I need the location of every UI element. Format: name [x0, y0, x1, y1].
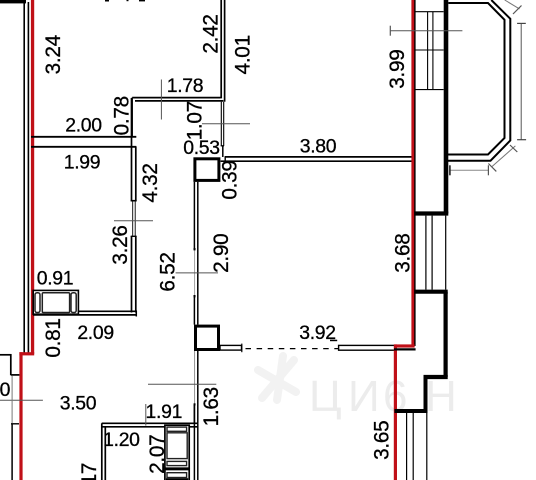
wall corridor right line b lower: [197, 351, 199, 423]
dim line vertical left: [11, 376, 13, 424]
wall left lower vertical: [11, 424, 13, 480]
door jamb thin line left: [132, 201, 134, 236]
wall 3.80 left cap: [224, 156, 226, 161]
wall 1.78 top line: [132, 97, 220, 99]
cabinet tall lower cell: [167, 473, 187, 478]
svg-text:1.07: 1.07: [183, 101, 206, 140]
dim line bay right vertical: [520, 23, 522, 139]
dashed opening line: [246, 348, 342, 350]
red boundary left vertical: [31, 0, 34, 354]
dim tick bay right top: [517, 22, 526, 24]
svg-text:3.99: 3.99: [386, 49, 409, 88]
window bottom mullion c: [426, 413, 428, 480]
wall left inner line: [27, 2, 29, 353]
wall bedroom right upper segment left line: [131, 98, 133, 201]
wall corridor right line b: [197, 182, 199, 325]
wall bottom-left corner horizontal: [0, 354, 12, 356]
red boundary right jog horizontal: [394, 344, 414, 347]
svg-text:1.91: 1.91: [146, 401, 183, 423]
wall corridor top left line: [220, 0, 222, 98]
wall step at kitchen door: [221, 145, 224, 147]
window top-right line1: [416, 11, 444, 13]
cabinet tall cell top: [167, 427, 187, 431]
black cap under red jog: [394, 348, 416, 350]
red boundary right vertical: [411, 0, 414, 347]
svg-text:0.39: 0.39: [219, 160, 242, 199]
shaft square lower: [196, 326, 219, 349]
svg-text:4.01: 4.01: [232, 35, 255, 74]
svg-text:4.32: 4.32: [139, 163, 162, 202]
wall room top (2.00) lower line: [31, 146, 136, 148]
dim tick 3.99 left: [389, 26, 391, 36]
wall corridor right line b bottom: [197, 424, 199, 480]
dim tick bay diagonal end b: [510, 145, 517, 152]
svg-text:0.91: 0.91: [37, 267, 74, 289]
dim line 3.26 crossing: [114, 220, 153, 222]
wall bedroom right upper segment right line: [135, 147, 137, 202]
window bottom mullion b: [412, 413, 414, 480]
svg-text:2.17: 2.17: [78, 463, 101, 480]
wall corridor top right line: [224, 0, 226, 102]
wall bedroom right upper end cap: [131, 200, 137, 202]
wall wc left outer: [101, 423, 103, 480]
dim tick bay bottom left: [449, 165, 451, 175]
cabinet tall cell low: [167, 461, 187, 465]
svg-text:3.50: 3.50: [60, 392, 97, 414]
window mid mullion a: [425, 216, 427, 290]
dim line 1.07: [202, 123, 250, 125]
svg-text:2.09: 2.09: [77, 322, 114, 344]
wall corridor right line a bottom: [193, 424, 195, 480]
wall step horizontal: [424, 375, 448, 379]
window top-right mullion a: [427, 12, 429, 90]
cabinet bedroom cell left: [35, 293, 40, 313]
svg-text:0.78: 0.78: [111, 96, 134, 135]
wall 3.80 top line: [225, 156, 412, 158]
svg-text:2.07: 2.07: [146, 435, 169, 474]
window top-right mullion b: [432, 12, 434, 90]
dim line 3.99 horizontal: [390, 30, 462, 32]
wall left outer line: [23, 2, 25, 353]
door jamb thin line right: [134, 201, 136, 236]
wall bedroom bottom lower line: [33, 314, 137, 316]
wall corridor right line a lower: [194, 351, 196, 405]
stray dash mark: [330, 340, 337, 342]
red boundary left lower vertical: [19, 352, 22, 480]
bay window inner outline: [444, 3, 505, 155]
svg-text:3.24: 3.24: [42, 35, 65, 74]
svg-text:3.65: 3.65: [371, 421, 394, 460]
svg-text:6.52: 6.52: [157, 252, 180, 291]
svg-text:1.20: 1.20: [103, 429, 140, 451]
watermark logo: [258, 356, 296, 400]
wall thin continuation left: [220, 102, 222, 146]
wall step vertical: [222, 146, 224, 157]
dim line 6.52 crossing: [176, 272, 218, 274]
dim tick bay diagonal top: [513, 6, 522, 15]
red boundary left jog horizontal: [19, 352, 34, 355]
cabinet tall cell mid: [167, 433, 187, 459]
dim tick left lower: [11, 423, 19, 425]
dim line bay bottom horizontal: [450, 169, 489, 171]
svg-text:2.00: 2.00: [65, 114, 102, 136]
svg-text:0.81: 0.81: [42, 318, 65, 357]
svg-text:1.99: 1.99: [64, 151, 101, 173]
dim tick bay diagonal end a: [488, 164, 496, 172]
window sill bar left of red: [339, 345, 395, 350]
shaft square upper: [195, 159, 219, 181]
wall thin continuation right: [223, 102, 225, 146]
wall bath bottom lower line: [102, 426, 199, 428]
svg-text:0: 0: [0, 379, 11, 401]
wall bottom-left stub to red: [11, 374, 20, 376]
svg-text:3.26: 3.26: [109, 225, 132, 264]
wall top-left bar: [0, 0, 26, 3]
svg-text:2.90: 2.90: [210, 234, 233, 273]
dim line bay diagonal top: [505, 0, 520, 9]
dim extension 1.78: [160, 80, 162, 120]
wall 1.78 left connector: [131, 98, 133, 137]
cabinet bedroom cell right: [71, 293, 76, 313]
cabinet tall outer: [165, 425, 189, 468]
wall room top (2.00) upper line: [31, 136, 136, 138]
wall bottom cap right: [395, 409, 428, 413]
wall bedroom right lower segment left line: [131, 236, 133, 313]
bay window outer outline: [444, 0, 510, 161]
wall step vertical right: [424, 377, 428, 411]
wall bath bottom upper line: [102, 422, 199, 424]
window mid right line: [445, 216, 447, 290]
svg-text:3.68: 3.68: [392, 233, 415, 272]
window bottom mullion a: [406, 413, 408, 480]
svg-text:3.80: 3.80: [300, 135, 337, 157]
dim extension 1.91 left: [145, 404, 147, 426]
wall bedroom right lower segment right line: [135, 236, 137, 313]
wall 3.80 bottom line: [221, 160, 412, 162]
wall bottom-left corner vertical: [10, 354, 12, 375]
wall cap mid: [414, 290, 448, 294]
svg-text:1.63: 1.63: [200, 387, 223, 426]
wall bedroom bottom upper line: [78, 310, 137, 312]
svg-text:ЦИ6Н: ЦИ6Н: [309, 372, 457, 421]
cabinet tall dark band: [166, 478, 188, 480]
wall corridor right line a: [193, 182, 195, 250]
dim tick bay right bottom: [517, 139, 526, 141]
wall bedroom bottom right cap: [135, 311, 137, 317]
wall 1.78 bottom line: [135, 100, 223, 102]
cabinet tall lower box: [165, 470, 189, 480]
cabinet bedroom outer: [33, 290, 78, 314]
wall outer thick right: [444, 0, 449, 214]
window top-right line3: [416, 89, 444, 91]
svg-text:2.42: 2.42: [199, 14, 222, 53]
red boundary right lower vertical: [394, 344, 397, 480]
wall cap upper: [414, 211, 448, 215]
dim line 3.50: [0, 399, 43, 401]
dim line bay diagonal: [492, 146, 516, 167]
wall wc left inner: [104, 427, 106, 480]
window mid mullion b: [431, 216, 433, 290]
svg-text:1.78: 1.78: [167, 75, 204, 97]
black line under right red: [414, 0, 416, 346]
window top-right line2: [416, 49, 444, 51]
dim line 1.91 crossing: [148, 383, 216, 385]
wall bedroom right lower start cap: [131, 235, 137, 237]
wall thick mid-right vertical: [444, 292, 448, 377]
cabinet bedroom cell mid: [42, 293, 69, 313]
window sill stub right of lower shaft: [220, 345, 242, 350]
tick at stub end: [241, 344, 243, 353]
cut text fragments at top: [105, 0, 109, 2]
dim tick bay bottom right: [487, 165, 489, 175]
svg-text:3.92: 3.92: [299, 322, 336, 344]
